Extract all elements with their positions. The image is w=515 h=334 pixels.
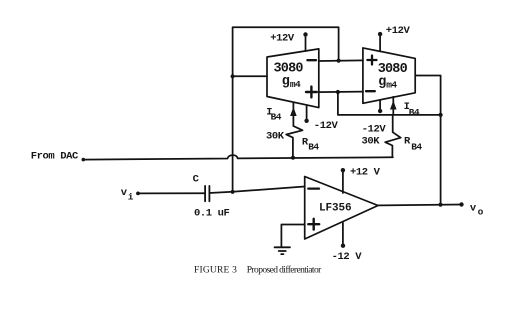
power +12V terminal of OTA2 <box>379 34 381 51</box>
svg-text:m4: m4 <box>386 79 397 90</box>
symbol: OTA2 plus sign <box>367 59 376 61</box>
wire: v_i to capacitor <box>138 192 205 194</box>
svg-text:+12V: +12V <box>386 25 411 37</box>
svg-text:B4: B4 <box>411 141 422 152</box>
node: junction on plus-input wire <box>336 90 340 94</box>
symbol: LF356 plus sign <box>308 223 319 225</box>
svg-text:B4: B4 <box>409 107 420 118</box>
svg-text:LF356: LF356 <box>319 203 352 215</box>
svg-text:Proposed differentiator: Proposed differentiator <box>247 265 322 276</box>
symbol: OTA1 plus sign <box>306 91 317 93</box>
svg-text:C: C <box>193 173 200 185</box>
op-amp U3 LF356 <box>305 177 378 240</box>
svg-text:From DAC: From DAC <box>31 150 79 162</box>
node: bias rail meets right vertical <box>439 113 443 117</box>
symbol: OTA1 minus sign <box>307 59 316 61</box>
wire: OTA1 output to feedback node <box>233 75 267 77</box>
power -12V terminal of OTA2 <box>379 100 381 111</box>
svg-text:+12 V: +12 V <box>350 166 381 178</box>
bias arrow IB4 into OTA1 <box>292 103 294 127</box>
power +12V terminal of LF356 <box>342 170 344 193</box>
svg-text:i: i <box>128 192 134 203</box>
wire: summing node to LF356 inverting input <box>233 187 305 192</box>
svg-text:g: g <box>378 75 386 90</box>
resistor R_B4 (30K) under OTA2 <box>385 115 401 157</box>
svg-text:+12V: +12V <box>270 33 295 45</box>
svg-text:g: g <box>282 74 290 89</box>
svg-text:-12V: -12V <box>362 124 387 136</box>
wire: LF356 output to v_o <box>378 204 462 207</box>
svg-text:-12 V: -12 V <box>332 251 363 263</box>
power +12V terminal of OTA1 <box>305 35 307 52</box>
wire: From DAC line with hop over vertical <box>83 155 393 159</box>
svg-text:-12V: -12V <box>314 120 339 132</box>
node: summing junction <box>231 190 235 194</box>
wire: LF356 plus input to ground <box>281 225 304 248</box>
resistor R_B4 (30K) under OTA1 <box>286 126 302 158</box>
node: feedback joins OTA1 minus input <box>337 59 341 63</box>
capacitor C1 0.1uF plates <box>204 186 206 201</box>
svg-text:o: o <box>478 206 484 217</box>
svg-text:m4: m4 <box>290 79 301 90</box>
node: v_i input terminal <box>136 192 140 196</box>
symbol: LF356 minus sign <box>308 187 319 189</box>
power -12V terminal of OTA1 <box>306 105 308 120</box>
svg-text:v: v <box>470 202 477 214</box>
svg-text:v: v <box>121 187 128 199</box>
node: From DAC terminal dot <box>82 158 86 162</box>
svg-text:30K: 30K <box>266 130 285 142</box>
op-amp U2 OTA 3080 gm4 (right, output facing right) <box>363 48 415 103</box>
wire: OTA2 output to right vertical <box>415 76 440 205</box>
wire: OTA1 plus input to OTA2 minus input <box>319 91 363 94</box>
power -12V terminal of LF356 <box>342 223 344 246</box>
svg-text:B4: B4 <box>308 142 319 153</box>
svg-text:R: R <box>404 135 411 147</box>
symbol: OTA2 minus sign <box>366 90 375 92</box>
wire: capacitor to summing node <box>209 192 232 193</box>
node: resistor RB4-1 to From-DAC line <box>291 156 295 160</box>
svg-text:30K: 30K <box>362 136 381 148</box>
svg-text:FIGURE 3: FIGURE 3 <box>194 266 237 276</box>
ground <box>275 246 290 248</box>
wire: down from plus-input junction to bias rail <box>338 92 441 115</box>
op-amp U1 OTA 3080 gm4 (left, output facing left) <box>267 49 319 108</box>
bias arrow IB4 into OTA2 <box>392 97 394 115</box>
wire: feedback top line <box>233 27 339 192</box>
node: v_o terminal <box>459 202 463 206</box>
node: junction OTA1 output / feedback <box>231 74 235 78</box>
node: output joins right vertical <box>438 203 442 207</box>
svg-text:B4: B4 <box>271 111 282 122</box>
wire: OTA1 minus input to OTA2 plus input <box>319 59 363 62</box>
svg-text:0.1 uF: 0.1 uF <box>194 208 230 220</box>
